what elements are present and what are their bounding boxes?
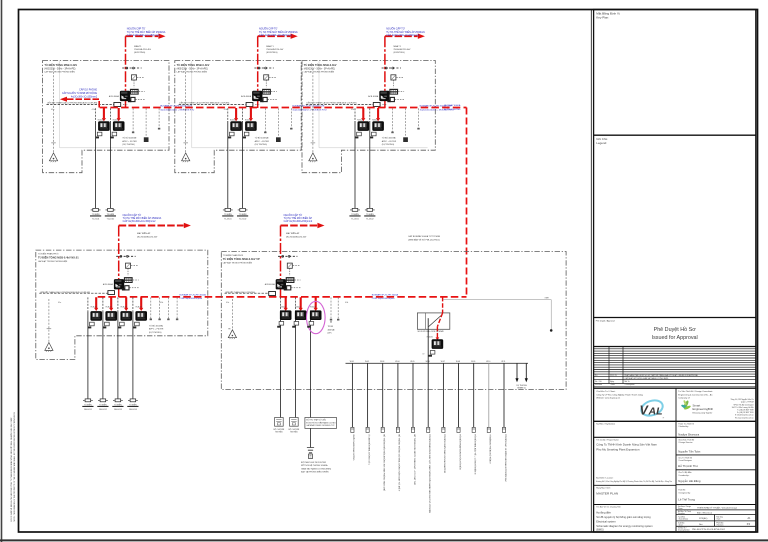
svg-text:Net.: Net. (699, 523, 703, 526)
svg-text:W.07: W.07 (441, 361, 445, 363)
svg-text:DB-LV.02: DB-LV.02 (99, 409, 107, 411)
feeder bus (346, 362, 529, 364)
svg-text:Mô Tả: Mô Tả (625, 380, 630, 383)
main red bus (top) (100, 107, 467, 109)
svg-text:GATEWAY RS485 / MODBUS-TCP: GATEWAY RS485 / MODBUS-TCP (306, 424, 335, 427)
svg-text:Chủ Đầu Tư / Client:: Chủ Đầu Tư / Client: (596, 390, 615, 393)
svg-text:DB-LV.04: DB-LV.04 (129, 409, 137, 411)
CT A1..A4 (88, 322, 95, 328)
svg-text:HỆ THỐNG BƠM NƯỚC SINH HOẠT +: HỆ THỐNG BƠM NƯỚC SINH HOẠT + PCCCHỆ THỐ (413, 434, 416, 485)
svg-text:CẬP NHẬT HỆ THỐNG GIÁM SÁT NĂN: CẬP NHẬT HỆ THỐNG GIÁM SÁT NĂNG LƯỢNG (B… (625, 377, 669, 380)
svg-text:Công Ty CP Khu Công Nghiệp Thà: Công Ty CP Khu Công Nghiệp Thành Thành C… (596, 394, 643, 396)
wire to antenna (310, 428, 312, 447)
svg-text:LƯU Ý: BẢN VẼ NÀY LÀ TÀI SẢN C: LƯU Ý: BẢN VẼ NÀY LÀ TÀI SẢN CỦA CÔNG TY… (10, 417, 13, 522)
svg-text:BUSWAY 4000A: BUSWAY 4000A (444, 104, 461, 107)
svg-text:DB-LV.03: DB-LV.03 (114, 409, 122, 411)
outgoing arrow B (red) (281, 225, 318, 227)
svg-text:Phê Duyệt / Approval:: Phê Duyệt / Approval: (596, 320, 616, 323)
svg-text:BUSBAR 3P+N+PE 4000A: BUSBAR 3P+N+PE 4000A (179, 293, 206, 296)
panel MSB-T1 (44, 28, 194, 221)
svg-text:Đỗ Thị Anh Thư: Đỗ Thị Anh Thư (678, 463, 698, 468)
svg-text:TỦ BÙ: TỦ BÙ (328, 325, 334, 328)
svg-text:TÍN HIỆU: TÍN HIỆU (290, 431, 298, 434)
panel MSB-T3 outline (302, 61, 435, 173)
svg-text:ĐI TRỤC ĐỨNG: ĐI TRỤC ĐỨNG (444, 108, 460, 111)
earth branch B (231, 299, 233, 330)
svg-text:Đường Số 3, Khu Công Nghiệp Ph: Đường Số 3, Khu Công Nghiệp Phú Mỹ 3, Ph… (596, 480, 672, 483)
svg-text:NOTE: THIS DRAWING IS THE PROP: NOTE: THIS DRAWING IS THE PROPERTY OF TH… (13, 412, 16, 522)
svg-text:TỦ ĐIỆN: TỦ ĐIỆN (114, 403, 122, 406)
ground A (45, 343, 53, 352)
svg-text:LIÊN KẾT THANH CÁI DỰ PHÒNG: LIÊN KẾT THANH CÁI DỰ PHÒNG (225, 291, 256, 294)
svg-text:ĐẶT TẠI PHÒNG ĐIỀU KHIỂN: ĐẶT TẠI PHÒNG ĐIỀU KHIỂN (301, 471, 329, 474)
svg-text:CẤP NGUỒN TỦ MSB MỞ RỘNG: CẤP NGUỒN TỦ MSB MỞ RỘNG (62, 92, 97, 95)
svg-text:CHIẾU SÁNG NHÀ XƯỞNG: CHIẾU SÁNG NHÀ XƯỞNG (352, 434, 355, 461)
CT B1..B3 (277, 322, 284, 328)
svg-text:Giám Đốc Thiết Kế: Giám Đốc Thiết Kế (678, 438, 695, 441)
svg-text:Tên Bản Vẽ / Dr. Drawing Title: Tên Bản Vẽ / Dr. Drawing Title: (596, 506, 621, 509)
incoming red riser A (118, 226, 120, 280)
spare feeders A (151, 297, 177, 318)
svg-text:Electrical system: Electrical system (596, 520, 615, 524)
svg-text:TỦ ĐIỆN DỰ PHÒNG MỞ RỘNGT: TỦ ĐIỆN DỰ PHÒNG MỞ RỘNGT (489, 434, 492, 464)
svg-text:Tầng 5-6, 235 Nguyễn Văn Cừ: Tầng 5-6, 235 Nguyễn Văn Cừ (731, 398, 755, 401)
svg-text:TỦ ĐIỆN PHÂN PHỐI: TỦ ĐIỆN PHÂN PHỐI (223, 254, 244, 257)
svg-text:LẮP ĐẶT TRONG PHÒNG ĐIỆN: LẮP ĐẶT TRONG PHÒNG ĐIỆN (38, 260, 68, 263)
svg-text:MASTER PLAN: MASTER PLAN (596, 491, 618, 495)
VAL logo (639, 398, 664, 420)
svg-text:W.05: W.05 (410, 361, 414, 363)
gateway box B1 (275, 418, 284, 427)
svg-text:AL: AL (648, 406, 663, 418)
svg-text:/ Date: / Date (610, 383, 615, 386)
drawing title row (594, 505, 756, 532)
svg-text:Ổ CẮM ĐIỆN NHÀ XƯỞNG 1Ổ C: Ổ CẮM ĐIỆN NHÀ XƯỞNG 1Ổ C (367, 434, 370, 465)
energy meter B4 (incomer) (432, 339, 444, 349)
svg-text:4x(3Cx300+1Cx150)mm2: 4x(3Cx300+1Cx150)mm2 (71, 96, 98, 98)
incomer wire to feeder bus (427, 318, 429, 363)
svg-text:KẾT NỐI HỆ THỐNG SCADA: KẾT NỐI HỆ THỐNG SCADA (301, 464, 328, 467)
spare arrow drop 1 (516, 363, 518, 379)
svg-text:4.2a: 4.2a (226, 302, 229, 304)
svg-text:Giai Đoạn / Design: Giai Đoạn / Design (678, 506, 691, 508)
panel MSB-T2 outline (175, 61, 301, 173)
svg-text:MÁY BIẾN ÁP: MÁY BIẾN ÁP (286, 232, 300, 235)
svg-text:Phase:: Phase: (678, 508, 683, 510)
svg-text:Thẩm Tra Thiết Kế: Thẩm Tra Thiết Kế (678, 423, 695, 426)
earth branch A (48, 299, 50, 343)
svg-text:TỦ BÙ 400kVAr: TỦ BÙ 400kVAr (149, 324, 163, 327)
svg-text:Enhancing Lively Together: Enhancing Lively Together (693, 411, 713, 414)
svg-text:W.03: W.03 (380, 361, 384, 363)
project row (594, 437, 756, 531)
logo section (594, 388, 756, 421)
legend box (594, 317, 756, 319)
svg-text:RCM-23: RCM-23 (310, 307, 316, 309)
svg-text:CÁP DỰ PHÒNG: CÁP DỰ PHÒNG (79, 89, 97, 92)
highlight ellipse (magenta) (307, 301, 326, 333)
svg-text:P.0: P.0 (747, 523, 751, 526)
svg-text:/ Description: / Description (625, 383, 635, 386)
svg-text:HỆ THỐNG ĐIỀU HÒA KHÔNG KHÍ VĂ: HỆ THỐNG ĐIỀU HÒA KHÔNG KHÍ VĂN PHÒNG TẦ… (383, 434, 386, 491)
svg-text:CÁP 4x(3Cx300+150)mm2: CÁP 4x(3Cx300+150)mm2 (284, 220, 313, 223)
svg-text:W.08: W.08 (456, 361, 460, 363)
svg-text:Schematic diagram for energy m: Schematic diagram for energy monitoring … (596, 524, 652, 528)
svg-text:Sơ đồ nguyên lý hệ thống giám: Sơ đồ nguyên lý hệ thống giám sát năng l… (596, 515, 651, 519)
svg-text:APFC + FILTER: APFC + FILTER (149, 328, 164, 331)
red riser to lower section (466, 108, 468, 297)
svg-text:TÍN HIỆU: TÍN HIỆU (275, 431, 283, 434)
load wires A (88, 297, 133, 311)
address block (731, 398, 755, 419)
title block frame (590, 10, 592, 533)
data logger note box (305, 418, 337, 429)
svg-text:(E) 2500kVA 22/0.4kV: (E) 2500kVA 22/0.4kV (137, 236, 158, 239)
right data cells (676, 510, 756, 526)
svg-text:TRIỂN KHAI KỸ THUẬT / Detailed: TRIỂN KHAI KỸ THUẬT / Detailed Design (697, 506, 738, 509)
svg-text:(DP): (DP) (328, 333, 332, 335)
svg-text:TỦ ĐIỆN: TỦ ĐIỆN (99, 403, 107, 406)
svg-text:Phu My Smarting Plant Expansio: Phu My Smarting Plant Expansion (596, 447, 640, 451)
svg-text:DỰ PHÒNG: DỰ PHÒNG (516, 384, 527, 387)
main incomer enclosure (417, 313, 449, 329)
svg-text:RCM-11: RCM-11 (91, 307, 97, 309)
svg-text:Website: www.ttcgroup.vn: Website: www.ttcgroup.vn (596, 397, 621, 400)
main red bus (bottom) (98, 296, 467, 298)
svg-text:Engineering & Construction JSC: Engineering & Construction JSC - An (678, 393, 713, 396)
svg-text:MÁY BIẾN ÁP: MÁY BIẾN ÁP (137, 232, 151, 235)
svg-text:W.06: W.06 (426, 361, 430, 363)
svg-text:KWH: KWH (545, 297, 550, 299)
spare arrow drop 2 (525, 363, 527, 379)
svg-text:Công Ty TNHH Kinh Doanh Nông S: Công Ty TNHH Kinh Doanh Nông Sản Việt Na… (596, 443, 657, 447)
svg-text:EngineeringBrill: EngineeringBrill (693, 407, 714, 411)
svg-text:E: info@smarteb.com.vn: E: info@smarteb.com.vn (735, 414, 754, 417)
svg-text:Ngày: Ngày (610, 381, 614, 383)
panel MSB-T3 (304, 28, 454, 221)
svg-text:Khổ Giấy: Khổ Giấy (716, 515, 723, 518)
svg-text:PE: PE (228, 328, 231, 330)
svg-text:No. / Số: No. / Số (595, 380, 602, 383)
svg-text:400kVAr: 400kVAr (328, 328, 335, 331)
svg-text:Nguyễn Hải Đăng: Nguyễn Hải Đăng (678, 478, 701, 483)
right name cells (676, 455, 756, 505)
panel DB-B outline (221, 252, 566, 390)
svg-text:A1: A1 (748, 517, 752, 520)
svg-text:Key Plan: Key Plan (596, 15, 608, 19)
svg-text:22.12.23: 22.12.23 (610, 375, 617, 377)
panel DB-A outline (36, 250, 208, 359)
energy meter B2 (295, 310, 307, 320)
svg-text:Nguyễn Tấn Toàn: Nguyễn Tấn Toàn (678, 448, 700, 453)
svg-text:/ Designed by:: / Designed by: (678, 492, 691, 494)
svg-text:/ Revision:: / Revision: (716, 524, 724, 526)
energy meter B1 (280, 310, 292, 320)
svg-text:Company of:: Company of: (678, 398, 690, 400)
breaker ACB-A (103, 255, 139, 290)
svg-text:LẮP ĐẶT TRONG PHÒNG ĐIỆN: LẮP ĐẶT TRONG PHÒNG ĐIỆN (223, 261, 253, 264)
ground B (228, 330, 236, 339)
svg-text:BỘ THU THẬP DỮ LIỆU: BỘ THU THẬP DỮ LIỆU (306, 419, 327, 422)
energy meter A3 (120, 311, 132, 321)
svg-text:RCM-31: RCM-31 (427, 337, 433, 339)
svg-text:W.04: W.04 (395, 361, 399, 363)
svg-text:W.09: W.09 (471, 361, 475, 363)
svg-text:Tên Dự Án / Project Name:: Tên Dự Án / Project Name: (596, 439, 619, 442)
svg-text:VPGD: Hà Nội Centrepoint: VPGD: Hà Nội Centrepoint (734, 403, 755, 406)
revision table (594, 347, 756, 384)
svg-text:CU/E 3x(4x100x10)mm: CU/E 3x(4x100x10)mm (372, 298, 395, 300)
svg-text:Chủ Trì Thiết Kế: Chủ Trì Thiết Kế (678, 456, 693, 459)
energy meter A4 (135, 311, 147, 321)
panel MSB-T1 outline (43, 61, 169, 173)
svg-text:Issued for Approval: Issued for Approval (652, 335, 698, 341)
svg-text:MCCB 3P 630A + RCM GATEWAY: MCCB 3P 630A + RCM GATEWAY (418, 330, 445, 333)
antenna / router symbol (307, 448, 314, 453)
meter feeds B (red) (286, 297, 316, 308)
svg-text:TỦ ĐIỆN NHÀ BẢO VỆ + CỔNGTỦ ĐI: TỦ ĐIỆN NHÀ BẢO VỆ + CỔNGTỦ ĐIỆN N (474, 434, 477, 474)
svg-text:Chủ Trì Bộ Môn: Chủ Trì Bộ Môn (678, 471, 691, 474)
left margin vertical note (10, 412, 16, 522)
svg-text:DB-LV.01: DB-LV.01 (84, 409, 92, 411)
green star logo (681, 400, 713, 415)
svg-text:(DỰ PHÒNG): (DỰ PHÒNG) (149, 331, 162, 334)
svg-text:Discipline:: Discipline: (678, 513, 686, 515)
svg-text:(XEM BẢN VẼ SỐ PML-BU-P001): (XEM BẢN VẼ SỐ PML-BU-P001) (408, 239, 440, 242)
meter feeds A (red) (96, 297, 141, 308)
key plan box (594, 134, 756, 136)
svg-text:/ Design Director:: / Design Director: (678, 441, 693, 444)
breaker ACB-B (265, 255, 301, 290)
svg-text:W.11: W.11 (501, 361, 505, 363)
CT B4 (428, 351, 435, 357)
svg-text:LIÊN KẾT THANH CÁI DỰ PHÒNG MS: LIÊN KẾT THANH CÁI DỰ PHÒNG MSB (BUS COU… (40, 291, 90, 294)
svg-text:BUSBAR 3P+N+PE 4000A: BUSBAR 3P+N+PE 4000A (372, 293, 399, 296)
svg-text:Địa Điểm / Location:: Địa Điểm / Location: (596, 477, 613, 480)
panel MSB-T2 (177, 28, 327, 221)
svg-text:CU/E 3x(4x100x10)mm: CU/E 3x(4x100x10)mm (179, 298, 202, 300)
svg-text:HỆ THỐNG THÔNG GIÓ NHÀ XƯỞNG S: HỆ THỐNG THÔNG GIÓ NHÀ XƯỞNG SẢN XUẤT SỐ… (398, 434, 401, 492)
spare feeders B (331, 297, 338, 318)
svg-text:BỘ CHUYỂN: BỘ CHUYỂN (274, 428, 285, 431)
svg-text:Số Bản Vẽ /: Số Bản Vẽ / (678, 527, 687, 530)
svg-text:RCM-22: RCM-22 (295, 307, 301, 309)
paper edge bottom (0, 539, 768, 541)
bus connection box B (269, 292, 276, 296)
svg-text:Nadiya Sharvora: Nadiya Sharvora (678, 432, 699, 436)
svg-text:4.1b: 4.1b (160, 302, 163, 304)
svg-text:W.01: W.01 (350, 361, 354, 363)
svg-text:4.1a: 4.1a (58, 302, 61, 304)
svg-text:W.10: W.10 (486, 361, 490, 363)
spare bus link B (black) (225, 292, 269, 294)
svg-text:TỦ ĐIỆN CHIẾU SÁNG NGOÀI NHÀTỦ: TỦ ĐIỆN CHIẾU SÁNG NGOÀI NHÀTỦ ĐI (443, 434, 446, 473)
outgoing arrow A (red) (119, 225, 184, 227)
svg-text:Thiết Kế: Thiết Kế (678, 489, 686, 492)
svg-text:/ Size:: / Size: (716, 518, 721, 520)
svg-text:Hạ tầng điện: Hạ tầng điện (596, 510, 611, 514)
svg-text:NTS(A1): NTS(A1) (699, 517, 708, 520)
measuring tap line (443, 299, 551, 301)
svg-text:GIÁM SÁT NĂNG LƯỢNG (EMS): GIÁM SÁT NĂNG LƯỢNG (EMS) (301, 467, 332, 470)
svg-text:Bộ Môn / Vẽ Thuật: Bộ Môn / Vẽ Thuật (678, 510, 691, 513)
svg-text:CÁP 4x(3Cx300+1Cx150)mm2: CÁP 4x(3Cx300+1Cx150)mm2 (123, 220, 157, 223)
svg-text:(E) 2500kVA 22/0.4kV: (E) 2500kVA 22/0.4kV (286, 236, 307, 239)
svg-text:TỦ ĐIỆN TRẠM BƠM NƯỚCTỦ ĐIỆN: TỦ ĐIỆN TRẠM BƠM NƯỚCTỦ ĐIỆN (458, 434, 461, 470)
energy meter A2 (105, 311, 117, 321)
svg-text:Ký Hiệu / Symbol(s):: Ký Hiệu / Symbol(s): (596, 424, 615, 426)
svg-text:PHÁT HÀNH PHÊ DUYỆT HỒ SƠ THIẾ: PHÁT HÀNH PHÊ DUYỆT HỒ SƠ THIẾT KẾ TRIỂN… (625, 374, 699, 377)
svg-text:Lê Thế Trung: Lê Thế Trung (678, 497, 695, 501)
svg-text:CÁP BUSWAY 4000A TỪ TỦ MSB: CÁP BUSWAY 4000A TỪ TỦ MSB (408, 235, 441, 238)
svg-text:SPARE 2x: SPARE 2x (517, 387, 526, 390)
svg-text:Tỷ Lệ Bản: Tỷ Lệ Bản (678, 515, 685, 518)
svg-text:(BMS): (BMS) (596, 528, 603, 532)
svg-text:Tư Vấn Thiết Kế / Design Consu: Tư Vấn Thiết Kế / Design Consultant: (678, 390, 713, 393)
svg-text:4.2b: 4.2b (345, 302, 348, 304)
svg-text:Legend: Legend (596, 141, 606, 145)
svg-text:TỦ ĐIỆN PHÂN PHỐI KHU VỰC VĂN: TỦ ĐIỆN PHÂN PHỐI KHU VỰC VĂN PHÒNG ĐIỀU… (428, 434, 431, 513)
spare bus link A (black) (39, 292, 109, 294)
load end symbols A (82, 399, 93, 407)
svg-text:RCM-21: RCM-21 (280, 307, 286, 309)
symbol / verified row (594, 421, 756, 437)
svg-text:/ Verified by:: / Verified by: (678, 425, 689, 428)
spare feeder arrow P1 (red, to left) (67, 99, 100, 107)
svg-text:TỦ ĐIỆN: TỦ ĐIỆN (129, 403, 137, 406)
svg-text:/ Leadership:: / Leadership: (678, 474, 689, 477)
svg-text:RCM-14: RCM-14 (136, 307, 142, 309)
svg-text:Hạng Mục / Item:: Hạng Mục / Item: (596, 487, 611, 490)
svg-text:CT: CT (422, 354, 424, 356)
incoming red riser B (280, 226, 282, 280)
svg-text:ĐỒNG HỒ ĐO ĐẾM NĂNG LƯỢNG: ĐỒNG HỒ ĐO ĐẾM NĂNG LƯỢNG (306, 421, 336, 424)
svg-text:/ Issue:: / Issue: (678, 524, 684, 526)
svg-text:P.0: P.0 (595, 375, 597, 377)
svg-text:RCM-13: RCM-13 (121, 307, 127, 309)
svg-text:TỦ ĐIỆN SẠC XE ĐIỆN KHU NHÀ XE: TỦ ĐIỆN SẠC XE ĐIỆN KHU NHÀ XETỦ ĐIỆN SẠ… (504, 434, 507, 482)
svg-text:BỘ CHUYỂN: BỘ CHUYỂN (289, 428, 300, 431)
paper edge left (1, 0, 3, 542)
svg-text:®: ® (663, 417, 665, 420)
svg-text:Điện / Electrical: Điện / Electrical (697, 511, 712, 514)
load wires B (281, 297, 296, 310)
svg-text:Phê Duyệt Hồ Sơ: Phê Duyệt Hồ Sơ (654, 327, 697, 333)
energy meter B3 (310, 310, 322, 320)
svg-text:Revision: Revision (595, 384, 602, 386)
energy meter A1 (90, 311, 102, 321)
svg-text:RCM-12: RCM-12 (106, 307, 112, 309)
svg-text:Số 27 Lê Văn Lương, Hà Nội: Số 27 Lê Văn Lương, Hà Nội (732, 406, 754, 409)
svg-text:TỦ ĐIỆN PHÂN PHỐI: TỦ ĐIỆN PHÂN PHỐI (38, 253, 59, 256)
svg-text:/ Lead Designer:: / Lead Designer: (678, 459, 692, 462)
gateway box B2 (290, 418, 299, 427)
svg-text:TỦ ĐIỆN: TỦ ĐIỆN (84, 403, 92, 406)
svg-text:Xuất Bản: Xuất Bản (678, 521, 685, 524)
svg-text:PML-BU-PPTH-XD-KS-BPVE-P002: PML-BU-PPTH-XD-KS-BPVE-P002 (692, 529, 726, 531)
svg-text:W.02: W.02 (365, 361, 369, 363)
bus connection box A (108, 291, 115, 295)
svg-text:W: www.smarteb.com.vn: W: www.smarteb.com.vn (735, 416, 754, 419)
svg-text:BỘ PHÁT 4G/LTE ROUTER: BỘ PHÁT 4G/LTE ROUTER (301, 461, 327, 464)
svg-text:Phiên Bản: Phiên Bản (716, 521, 723, 524)
red branch into enclosure (442, 297, 444, 313)
